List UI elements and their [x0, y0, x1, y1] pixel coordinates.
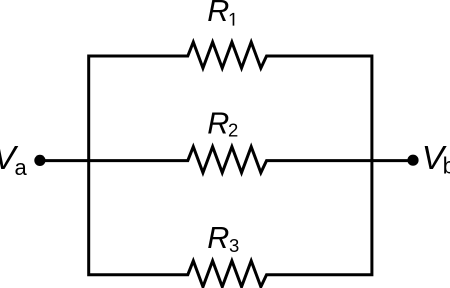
svg-text:R: R	[207, 221, 229, 255]
node Vb terminal dot	[407, 155, 418, 166]
resistor R1 label	[207, 0, 234, 28]
svg-text:2: 2	[228, 120, 238, 141]
svg-text:a: a	[15, 155, 28, 180]
wire: middle branch Va to Vb with R2 zigzag	[40, 147, 412, 173]
wire: outer loop (top wire with R1, right rail, bottom wire with R3, left rail)	[89, 42, 372, 287]
node Va label	[0, 140, 28, 180]
svg-text:R: R	[207, 0, 229, 28]
svg-text:R: R	[207, 107, 229, 141]
svg-text:3: 3	[229, 235, 239, 256]
resistor R2 label	[207, 107, 238, 141]
resistor R3 label	[207, 221, 239, 256]
svg-text:b: b	[443, 153, 450, 179]
node Vb label	[422, 140, 450, 179]
node Va terminal dot	[34, 155, 45, 166]
